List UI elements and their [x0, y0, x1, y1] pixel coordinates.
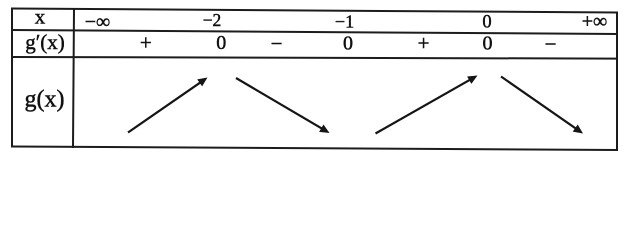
row separator x / g'(x) — [12, 30, 617, 34]
svg-text:−1: −1 — [335, 12, 354, 32]
svg-text:g′(x): g′(x) — [25, 30, 65, 54]
svg-text:+: + — [418, 31, 430, 55]
table bottom border — [12, 147, 617, 151]
g(x) falling arrow 2 — [501, 77, 583, 134]
svg-text:g(x): g(x) — [25, 87, 65, 113]
svg-text:0: 0 — [343, 33, 353, 55]
table left border — [11, 9, 13, 147]
svg-text:0: 0 — [216, 32, 226, 54]
g(x) rising arrow 1 — [128, 78, 208, 133]
svg-text:0: 0 — [482, 13, 491, 33]
svg-text:−∞: −∞ — [85, 11, 111, 33]
svg-text:+∞: +∞ — [582, 11, 608, 33]
table right border — [616, 13, 618, 151]
header column separator — [73, 10, 74, 148]
row separator g'(x) / g(x) — [12, 57, 617, 59]
svg-text:−: − — [271, 32, 283, 56]
svg-text:0: 0 — [483, 33, 493, 55]
g(x) falling arrow 1 — [236, 78, 330, 133]
svg-text:−: − — [545, 32, 557, 56]
g(x) rising arrow 2 — [376, 76, 478, 134]
svg-text:x: x — [35, 5, 46, 29]
table top border — [12, 9, 617, 13]
svg-text:+: + — [140, 31, 152, 55]
svg-text:−2: −2 — [203, 10, 222, 30]
